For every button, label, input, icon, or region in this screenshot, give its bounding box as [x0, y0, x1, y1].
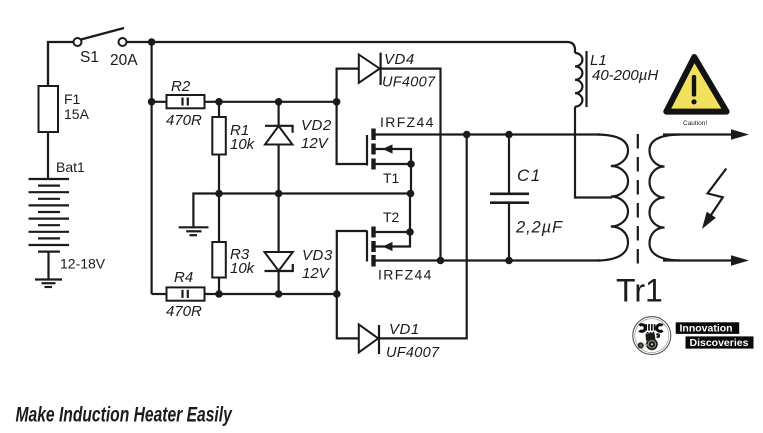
svg-text:12V: 12V — [302, 265, 331, 282]
wire top rail — [152, 42, 575, 53]
switch S1 — [74, 38, 82, 46]
fuse F1 — [39, 86, 59, 132]
logo circle — [633, 317, 671, 355]
battery Bat1 — [29, 179, 70, 252]
wire T1 body to source — [375, 149, 411, 194]
wire secondary output bottom — [663, 259, 732, 261]
svg-text:UF4007: UF4007 — [382, 75, 436, 91]
wire mid rail — [219, 192, 411, 194]
svg-text:VD4: VD4 — [384, 51, 415, 68]
wire T2 source to mid rail — [409, 194, 411, 233]
resistor R4 — [152, 293, 167, 295]
svg-text:15A: 15A — [64, 106, 90, 122]
diode VD1 — [337, 294, 359, 338]
svg-text:20A: 20A — [110, 52, 138, 69]
transformer Tr1 secondary — [650, 135, 681, 261]
transformer Tr1 primary — [597, 135, 628, 261]
svg-text:Bat1: Bat1 — [56, 159, 85, 175]
svg-text:S1: S1 — [80, 49, 99, 66]
svg-text:10k: 10k — [230, 136, 256, 153]
zener diode VD3 — [278, 194, 280, 295]
node VD1 to T1 drain — [463, 131, 471, 139]
transistor T2 IRFZ44 — [337, 231, 367, 294]
wire battery to ground — [47, 252, 49, 279]
svg-text:470R: 470R — [166, 303, 202, 320]
inductor L1 — [575, 53, 582, 107]
wire T2 drain rail — [375, 259, 600, 261]
wire T1 source — [375, 163, 411, 165]
svg-text:R4: R4 — [174, 269, 193, 286]
wire secondary output top — [663, 133, 732, 135]
transistor T1 IRFZ44 — [337, 102, 367, 164]
svg-text:Discoveries: Discoveries — [690, 337, 749, 349]
core L1 — [585, 51, 587, 107]
resistor R1 — [218, 102, 220, 117]
svg-text:IRFZ44: IRFZ44 — [378, 267, 433, 283]
svg-text:2,2µF: 2,2µF — [515, 219, 563, 237]
svg-text:10k: 10k — [230, 260, 256, 277]
svg-text:40-200µH: 40-200µH — [592, 67, 658, 84]
node junction top-left — [148, 38, 156, 46]
capacitor C1 — [508, 135, 510, 194]
resistor R2 — [148, 98, 156, 106]
zener diode VD2 — [278, 102, 280, 194]
svg-text:VD3: VD3 — [302, 247, 333, 264]
svg-text:IRFZ44: IRFZ44 — [380, 114, 435, 130]
logo text Innovation — [676, 322, 740, 334]
svg-text:Innovation: Innovation — [680, 323, 733, 335]
wire left rail vertical — [151, 42, 153, 294]
lightning bolt — [708, 169, 727, 216]
logo text Discoveries — [686, 336, 754, 348]
svg-text:R2: R2 — [171, 78, 191, 95]
svg-text:Tr1: Tr1 — [616, 273, 663, 309]
svg-text:T1: T1 — [383, 170, 400, 186]
node VD4 to T2 drain — [437, 257, 445, 265]
wire switch to junction — [127, 41, 154, 43]
svg-text:T2: T2 — [383, 209, 400, 225]
svg-text:C1: C1 — [517, 166, 542, 185]
svg-text:F1: F1 — [64, 91, 81, 107]
svg-text:Make Induction Heater Easily: Make Induction Heater Easily — [16, 402, 234, 426]
svg-text:VD1: VD1 — [389, 321, 420, 338]
svg-text:Caution!: Caution! — [683, 120, 707, 127]
wire left top from switch to fuse — [48, 42, 74, 88]
svg-text:470R: 470R — [166, 112, 202, 129]
wire gate rail T2 (bottom) — [219, 293, 337, 295]
wire T2 body to source — [375, 232, 410, 247]
svg-text:12V: 12V — [301, 135, 330, 152]
wire gate rail T1 — [219, 101, 337, 103]
wire L1 to center tap — [575, 107, 612, 198]
wire T2 source — [375, 231, 410, 233]
wire T1 drain rail — [375, 133, 600, 135]
transformer Tr1 core — [637, 134, 639, 265]
resistor R3 — [218, 194, 220, 243]
svg-text:UF4007: UF4007 — [386, 345, 440, 361]
svg-text:12-18V: 12-18V — [60, 256, 106, 272]
ground battery — [35, 280, 62, 288]
warning triangle — [666, 57, 726, 112]
ground mid — [193, 194, 219, 228]
svg-text:VD2: VD2 — [301, 117, 332, 134]
diode VD4 — [337, 69, 359, 102]
